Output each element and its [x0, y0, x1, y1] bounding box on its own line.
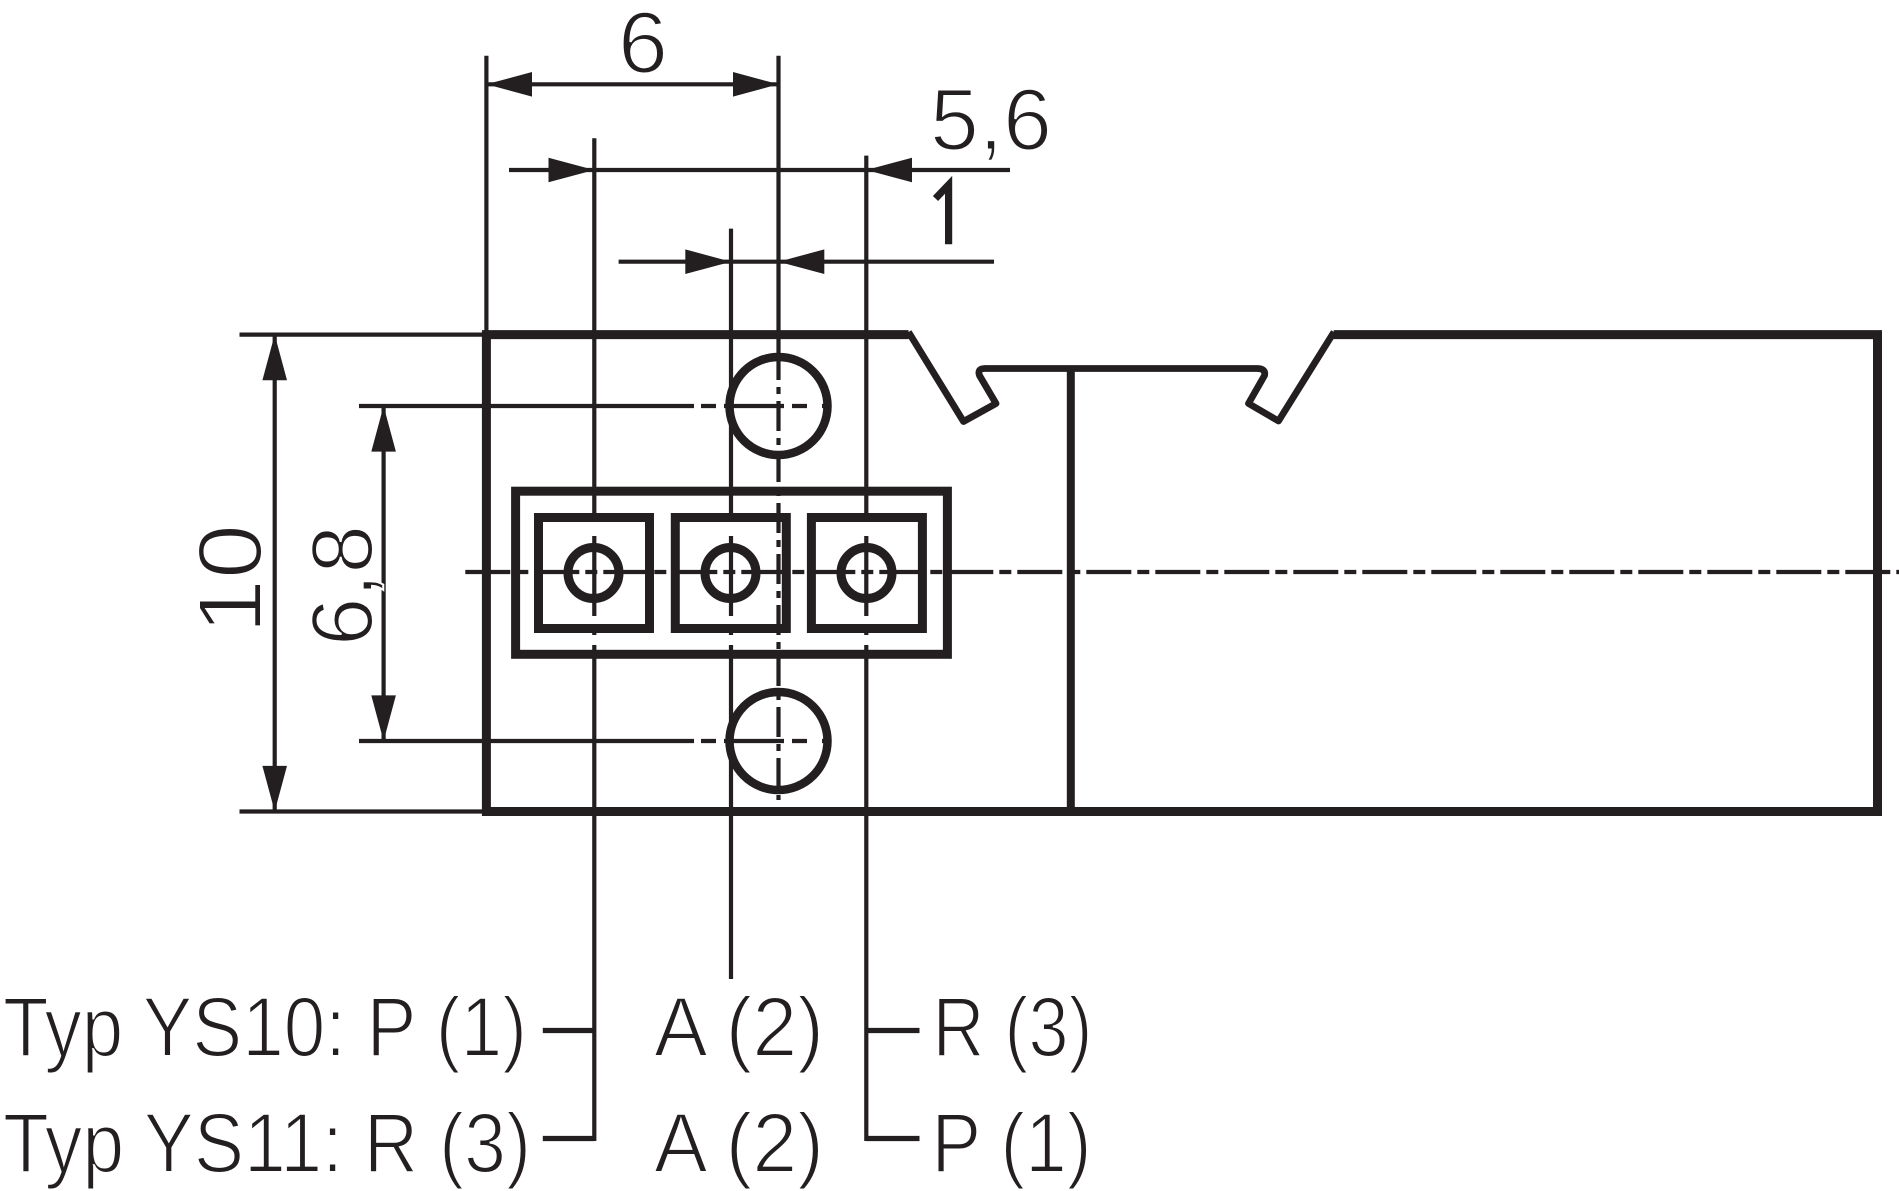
svg-text:5,6: 5,6: [930, 72, 1052, 169]
svg-text:A (2): A (2): [654, 980, 824, 1074]
dimension 10 line: [273, 335, 277, 812]
label tick R row2: [866, 1136, 919, 1141]
connector outer rectangle: [516, 491, 948, 654]
label tick P row1: [543, 1028, 595, 1033]
extension line body left: [484, 56, 488, 335]
dimension 6,8 line: [382, 406, 386, 741]
label tick P row2: [543, 1136, 595, 1141]
dimension 6 line: [486, 82, 778, 86]
bottom hole crosshair: [359, 739, 694, 743]
pin circle R: [841, 548, 892, 599]
svg-text:R (3): R (3): [933, 980, 1093, 1074]
bottom hole: [730, 692, 828, 790]
svg-text:6,8: 6,8: [294, 525, 391, 646]
dimension 1 line: [619, 260, 994, 264]
top hole: [730, 357, 828, 455]
svg-text:P (1): P (1): [932, 1096, 1092, 1190]
top hole crosshair: [359, 404, 694, 408]
dim text 1: [936, 185, 949, 245]
pin square P: [539, 518, 650, 629]
pin square A: [675, 518, 786, 629]
extension line body top: [240, 333, 487, 337]
label tick R row1: [866, 1028, 919, 1033]
extension line body bottom: [240, 809, 487, 813]
dimension 5,6 line: [509, 168, 1010, 172]
rib line: [1067, 369, 1075, 808]
body outline: [486, 335, 1877, 812]
pin circle P: [568, 548, 619, 599]
hole axis line: [776, 56, 780, 350]
svg-text:A (2): A (2): [654, 1096, 824, 1190]
svg-text:Typ YS10: P (1): Typ YS10: P (1): [3, 980, 527, 1074]
svg-text:6: 6: [618, 0, 668, 92]
pin circle A: [705, 548, 756, 599]
pin square R: [811, 518, 922, 629]
port line A: [729, 229, 733, 979]
port line R: [864, 156, 868, 1141]
svg-text:10: 10: [181, 524, 281, 634]
svg-text:Typ YS11: R (3): Typ YS11: R (3): [3, 1096, 531, 1190]
centerline: [465, 570, 1899, 574]
port line P: [592, 138, 596, 1141]
groove: [909, 332, 1335, 422]
